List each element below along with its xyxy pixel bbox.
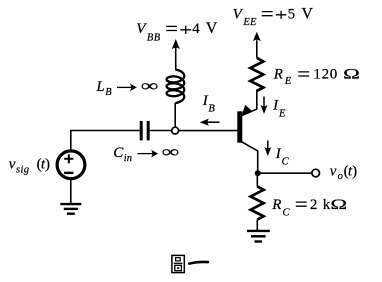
- wire source bottom: [70, 180, 72, 204]
- svg-text:∞: ∞: [141, 76, 159, 95]
- svg-text:E: E: [278, 108, 286, 119]
- svg-text:R: R: [271, 197, 281, 213]
- label vo(t): [330, 164, 357, 182]
- ground under source: [60, 204, 81, 214]
- label IE: [272, 98, 286, 120]
- label IC: [275, 146, 290, 167]
- collector diagonal: [241, 141, 258, 151]
- svg-text:): ): [45, 157, 50, 173]
- inductor LB coil: [167, 70, 185, 103]
- ground under RC: [247, 231, 270, 242]
- arrow IB: [200, 119, 220, 126]
- label IB: [202, 93, 216, 115]
- svg-text:V: V: [233, 6, 244, 22]
- svg-text:B: B: [208, 104, 215, 115]
- caption figure 1: [172, 255, 208, 272]
- wire cap to node: [150, 130, 172, 132]
- svg-text:o: o: [338, 171, 343, 182]
- voltage source vsig: [57, 151, 85, 179]
- svg-text:4: 4: [192, 21, 200, 37]
- wire RC to ground: [256, 220, 258, 231]
- svg-text:V: V: [206, 20, 218, 37]
- wire node to coil: [174, 103, 176, 127]
- svg-text:E: E: [284, 76, 292, 87]
- wire node to base: [179, 130, 238, 132]
- label RE: [273, 66, 360, 87]
- svg-text:Ω: Ω: [330, 196, 347, 212]
- collector vertical: [257, 150, 259, 173]
- wire dot to RC: [256, 176, 258, 187]
- emitter arrowhead: [242, 105, 252, 115]
- svg-text:sig: sig: [16, 165, 29, 176]
- svg-text:Ω: Ω: [343, 66, 360, 82]
- svg-text:120: 120: [313, 67, 338, 83]
- svg-text:L: L: [95, 79, 104, 95]
- svg-text:in: in: [124, 153, 132, 164]
- output terminal circle: [312, 169, 320, 177]
- wire RE to VEE arrow: [256, 40, 258, 58]
- svg-text:v: v: [9, 157, 16, 173]
- svg-text:EE: EE: [242, 17, 257, 28]
- svg-text:V: V: [136, 21, 147, 37]
- svg-text:∞: ∞: [162, 142, 180, 161]
- label Cin: [113, 142, 179, 164]
- svg-text:C: C: [113, 145, 124, 161]
- resistor RE: [250, 58, 263, 91]
- arrow IE: [261, 97, 268, 115]
- svg-text:C: C: [283, 208, 291, 219]
- svg-text:5: 5: [288, 6, 296, 22]
- svg-text:2: 2: [310, 197, 318, 213]
- label VEE: [233, 5, 314, 28]
- label LB: [95, 76, 158, 98]
- arrowhead VBB: [172, 39, 180, 49]
- wire source top: [71, 131, 140, 152]
- transistor Q1 base bar: [237, 111, 242, 142]
- arrow IC: [264, 141, 271, 157]
- svg-text:B: B: [105, 87, 112, 98]
- emitter vertical: [256, 90, 258, 110]
- label VBB: [136, 20, 218, 43]
- capacitor Cin: [141, 121, 148, 140]
- wire coil to VBB arrow: [175, 48, 177, 70]
- svg-text:): ): [352, 164, 357, 180]
- svg-text:BB: BB: [147, 32, 161, 43]
- arrowhead VEE: [253, 32, 261, 42]
- svg-text:C: C: [282, 156, 290, 167]
- svg-text:v: v: [330, 164, 337, 180]
- node circle: [172, 127, 179, 134]
- svg-text:R: R: [273, 67, 283, 83]
- label vsig(t): [9, 157, 50, 176]
- junction dot: [255, 170, 261, 176]
- output wire: [258, 172, 312, 174]
- resistor RC: [251, 187, 264, 220]
- svg-text:V: V: [301, 5, 313, 22]
- emitter diagonal: [241, 109, 257, 116]
- label RC: [271, 196, 347, 218]
